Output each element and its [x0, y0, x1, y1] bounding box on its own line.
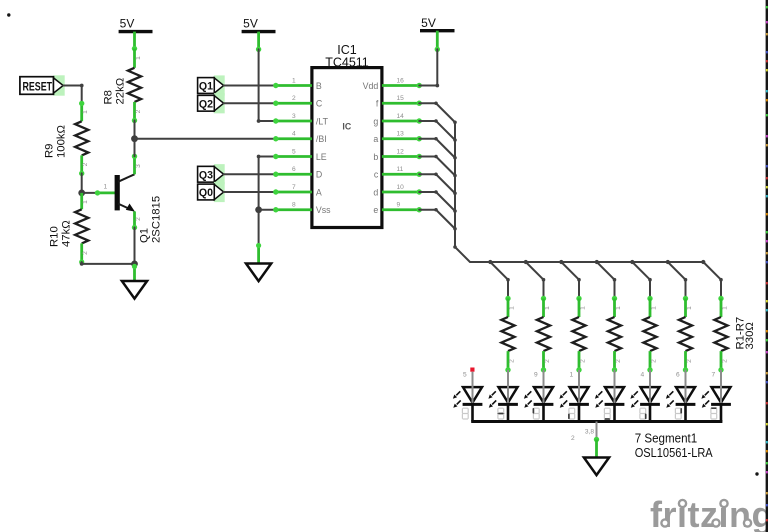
wire RESET to R9 [63, 86, 81, 104]
stray dot bottom-right [755, 472, 758, 475]
svg-text:1: 1 [650, 306, 657, 310]
svg-text:/BI: /BI [316, 134, 327, 144]
LED segment 4 of 7 Segment1 [559, 370, 589, 422]
svg-text:2: 2 [615, 359, 622, 363]
wire to ground [258, 210, 260, 246]
svg-text:5V: 5V [120, 17, 135, 31]
power +5V PWR3 (right) [420, 16, 455, 52]
power +5V PWR1 (left) [119, 17, 153, 52]
svg-text:7 Segment1: 7 Segment1 [635, 431, 698, 446]
svg-text:/LT: /LT [316, 116, 329, 126]
LED segment 7 of 7 Segment1 [666, 370, 696, 422]
wire to resistor R2 [524, 260, 546, 299]
UI edge strip [766, 0, 768, 532]
pin 14 g [373, 113, 422, 127]
svg-text:330Ω: 330Ω [744, 322, 756, 349]
wire bundle segment outputs [419, 101, 703, 262]
pin 3,8 common [571, 422, 599, 458]
wire to resistor R5 [630, 260, 652, 299]
svg-text:5: 5 [463, 372, 467, 379]
svg-text:5V: 5V [421, 16, 436, 30]
svg-text:1: 1 [544, 306, 551, 310]
svg-text:2: 2 [135, 217, 142, 221]
ground GND3 [584, 458, 609, 476]
svg-text:R9: R9 [43, 144, 55, 158]
LED segment 3 of 7 Segment1 [524, 370, 554, 422]
pin 11 c [374, 166, 422, 180]
wire Q2 to pin C [224, 102, 276, 104]
svg-text:1: 1 [508, 306, 515, 310]
svg-text:2: 2 [650, 359, 657, 363]
svg-text:R10: R10 [49, 226, 61, 247]
svg-text:3: 3 [292, 113, 296, 120]
op-amp/IC U1 TC4511 body [312, 43, 382, 228]
resistor R4 330 [608, 296, 622, 373]
svg-text:Vss: Vss [316, 205, 331, 215]
svg-text:2: 2 [292, 95, 296, 102]
pin 5 LE [273, 148, 327, 162]
svg-text:LE: LE [316, 152, 327, 162]
svg-text:2: 2 [82, 162, 89, 166]
svg-text:2: 2 [579, 359, 586, 363]
resistor R9 100k [43, 101, 89, 176]
resistor R3 330 [572, 296, 586, 373]
svg-text:d: d [373, 187, 378, 197]
svg-text:7: 7 [292, 184, 296, 191]
LED segment 2 of 7 Segment1 [488, 370, 518, 422]
svg-text:1: 1 [82, 110, 89, 114]
svg-text:2: 2 [571, 435, 575, 442]
svg-text:3: 3 [135, 164, 142, 168]
svg-text:g: g [373, 116, 378, 126]
wire collector to junction [134, 139, 136, 157]
svg-text:R8: R8 [103, 90, 115, 104]
wire common cathode bus [471, 420, 722, 423]
resistor R1 330 [501, 296, 515, 373]
pin 9 e [373, 202, 422, 216]
pin 10 d [373, 184, 422, 198]
svg-text:22kΩ: 22kΩ [115, 78, 127, 105]
svg-text:5V: 5V [243, 17, 258, 31]
pin 4 /BI [273, 131, 327, 145]
svg-text:TC4511: TC4511 [325, 56, 369, 70]
svg-text:2SC1815: 2SC1815 [151, 196, 163, 243]
svg-text:1: 1 [135, 56, 142, 60]
svg-text:1: 1 [104, 184, 108, 191]
svg-text:8: 8 [292, 202, 296, 209]
transistor Q1 2SC1815 [95, 154, 163, 243]
svg-text:B: B [316, 81, 322, 91]
svg-text:1: 1 [721, 306, 728, 310]
svg-text:1: 1 [292, 77, 296, 84]
wire Vss stub [259, 209, 276, 211]
connector RESET [20, 75, 65, 95]
svg-text:9: 9 [534, 372, 538, 379]
wire R10 to emitter junction [82, 262, 135, 264]
wire to resistor R1 [488, 260, 510, 299]
svg-text:4: 4 [641, 372, 645, 379]
svg-text:a: a [373, 134, 378, 144]
svg-text:1: 1 [82, 200, 89, 204]
svg-text:5: 5 [292, 148, 296, 155]
pin 15 f [376, 95, 422, 109]
svg-text:2: 2 [544, 359, 551, 363]
connector Q2 [198, 93, 225, 113]
svg-text:RESET: RESET [23, 81, 53, 93]
wire LE to Vss junction [259, 157, 276, 210]
wire /BI net [135, 138, 276, 140]
wire 5V to Vdd [419, 49, 437, 85]
svg-text:Q2: Q2 [199, 98, 213, 110]
resistor R5 330 [643, 296, 657, 373]
connector Q3 [198, 164, 225, 184]
connector Q0 [198, 182, 225, 202]
watermark fritzing logo [650, 494, 768, 532]
resistor R8 22k [103, 49, 142, 124]
resistor R10 47k [49, 193, 90, 265]
svg-text:Q1: Q1 [139, 228, 151, 243]
svg-text:c: c [374, 170, 379, 180]
node junction R8/Q1-collector//BI [131, 135, 138, 142]
svg-text:16: 16 [397, 77, 405, 84]
pin 16 Vdd [363, 77, 422, 91]
svg-text:3,8: 3,8 [585, 429, 594, 436]
svg-text:14: 14 [397, 113, 405, 120]
svg-text:1: 1 [615, 306, 622, 310]
svg-text:b: b [373, 152, 378, 162]
node Vss junction [255, 206, 262, 213]
LED segment 8 of 7 Segment1 [701, 370, 731, 422]
pin 6 D [273, 166, 322, 180]
svg-text:4: 4 [292, 131, 296, 138]
svg-text:47kΩ: 47kΩ [61, 220, 73, 247]
svg-text:2: 2 [508, 359, 515, 363]
wire Q0 to pin A [224, 191, 276, 193]
wire base [82, 192, 98, 194]
svg-text:IC: IC [342, 122, 351, 132]
svg-text:100kΩ: 100kΩ [55, 125, 67, 158]
svg-text:Vdd: Vdd [363, 81, 379, 91]
svg-text:2: 2 [82, 251, 89, 255]
svg-text:6: 6 [676, 372, 680, 379]
svg-text:1: 1 [570, 372, 574, 379]
resistor R6 330 [679, 296, 693, 373]
wire Q3 to pin D [224, 173, 276, 175]
svg-text:e: e [373, 205, 378, 215]
resistor R2 330 [537, 296, 551, 373]
wire to resistor R4 [595, 260, 617, 299]
connector Q1 [198, 75, 225, 95]
power +5V PWR2 (middle) [242, 17, 276, 53]
pin 12 b [373, 148, 422, 162]
LED segment 5 of 7 Segment1 [595, 370, 625, 422]
pin 7 A [273, 184, 322, 198]
pin 8 Vss [273, 202, 331, 216]
node emitter junction [131, 261, 138, 268]
svg-text:C: C [316, 99, 323, 109]
svg-text:12: 12 [397, 148, 405, 155]
svg-text:Q0: Q0 [199, 187, 213, 199]
wire 5V to /LT [259, 49, 276, 121]
wire R8 to junction [134, 121, 136, 139]
pin 1 B [273, 77, 322, 91]
svg-text:Q1: Q1 [199, 81, 213, 93]
wire to resistor R6 [666, 260, 688, 299]
svg-text:13: 13 [397, 131, 405, 138]
resistor R7 330 [714, 296, 728, 373]
ground GND1 [122, 281, 147, 299]
svg-text:9: 9 [397, 202, 401, 209]
ground GND2 [246, 264, 271, 282]
wire to resistor R7 [701, 260, 723, 299]
pin 2 C [273, 95, 323, 109]
LED segment 6 of 7 Segment1 [630, 370, 660, 422]
svg-text:OSL10561-LRA: OSL10561-LRA [635, 445, 713, 460]
svg-text:A: A [316, 187, 322, 197]
pin 13 a [373, 131, 422, 145]
svg-text:10: 10 [397, 184, 405, 191]
LED segment 1 of 7 Segment1 [453, 368, 483, 422]
pin 3 /LT [273, 113, 328, 127]
svg-text:Q3: Q3 [199, 169, 213, 181]
svg-text:2: 2 [721, 359, 728, 363]
svg-text:1: 1 [686, 306, 693, 310]
wire R9 to base node [81, 173, 83, 193]
svg-text:6: 6 [292, 166, 296, 173]
wire to resistor R3 [559, 260, 581, 299]
wire to ground [133, 264, 136, 281]
svg-text:15: 15 [397, 95, 405, 102]
svg-text:11: 11 [397, 166, 404, 173]
wire emitter down [134, 228, 136, 264]
svg-text:1: 1 [579, 306, 586, 310]
stray dot top-left [7, 13, 10, 16]
svg-text:D: D [316, 170, 322, 180]
svg-text:2: 2 [686, 359, 693, 363]
svg-text:2: 2 [135, 109, 142, 113]
svg-text:7: 7 [712, 372, 716, 379]
wire Q1 to pin B [224, 85, 276, 87]
node base junction [78, 190, 85, 197]
